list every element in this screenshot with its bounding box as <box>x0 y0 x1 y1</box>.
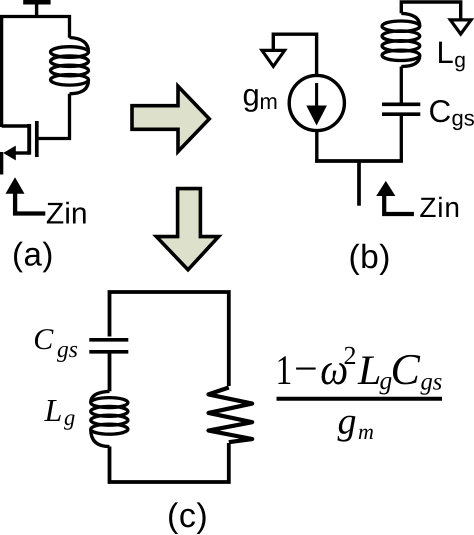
Zin arrow (a) <box>6 177 46 213</box>
wire: loop rectangle bottom (c) <box>110 443 229 482</box>
wire: top wire (b) <box>401 2 460 19</box>
svg-text:L: L <box>437 35 454 70</box>
wire: inductor to gate lead (a) <box>37 94 70 139</box>
svg-text:gs: gs <box>57 337 78 363</box>
svg-text:C: C <box>429 93 452 129</box>
svg-text:g: g <box>64 405 75 430</box>
inductor Lg (b) <box>382 13 420 66</box>
block arrow right <box>132 86 209 151</box>
Zin arrow (b) <box>376 181 414 214</box>
svg-text:L: L <box>357 348 381 394</box>
wire: capacitor to inductor (c) <box>108 352 112 392</box>
svg-text:gs: gs <box>452 105 474 130</box>
svg-text:C: C <box>33 323 54 356</box>
fraction bar <box>277 397 443 401</box>
inductor Lg (c) <box>91 391 128 446</box>
svg-text:g: g <box>338 400 357 442</box>
wire: loop rectangle left-top (c) <box>110 292 229 386</box>
svg-text:gs: gs <box>421 369 443 396</box>
capacitor Cgs (c) <box>89 340 128 352</box>
wire: elbow to left ground (b) <box>273 34 316 75</box>
formula denominator g_m <box>338 400 374 444</box>
block arrow down <box>156 189 218 270</box>
svg-text:(a): (a) <box>12 236 54 273</box>
transistor M1 (a) <box>2 121 37 157</box>
svg-text:g: g <box>243 78 260 113</box>
wire: inductor to capacitor (b) <box>400 67 403 103</box>
svg-text:L: L <box>44 392 63 428</box>
inductor Ld (a) <box>51 38 89 94</box>
wire: bottom wire (b) <box>315 159 403 163</box>
source arrow of M1 <box>3 146 16 161</box>
svg-text:1: 1 <box>276 348 293 394</box>
svg-text:Zin: Zin <box>46 197 88 230</box>
formula numerator 1 <box>276 341 443 396</box>
svg-text:−: − <box>294 347 318 393</box>
svg-text:(c): (c) <box>167 497 208 535</box>
svg-text:2: 2 <box>344 341 357 370</box>
svg-text:g: g <box>454 49 466 72</box>
wire: capacitor to bottom wire (b) <box>400 114 403 162</box>
svg-text:Zin: Zin <box>419 192 460 223</box>
wire: current source to bottom wire (b) <box>315 131 318 163</box>
svg-text:m: m <box>260 89 278 114</box>
capacitor Cgs (b) <box>382 104 420 114</box>
current source gm (b) <box>289 75 344 130</box>
svg-text:C: C <box>391 345 421 394</box>
wire: source stub (a) <box>0 152 3 175</box>
ground arrow right (b) <box>450 20 471 34</box>
svg-text:(b): (b) <box>349 239 391 276</box>
wire: top rail and branches (a) <box>2 17 70 128</box>
svg-text:m: m <box>358 419 374 444</box>
wire: input stub (b) <box>357 161 361 206</box>
supply bar VDD (a) <box>23 0 50 17</box>
resistor (c) <box>209 388 253 443</box>
ground arrow left (b) <box>262 50 285 66</box>
